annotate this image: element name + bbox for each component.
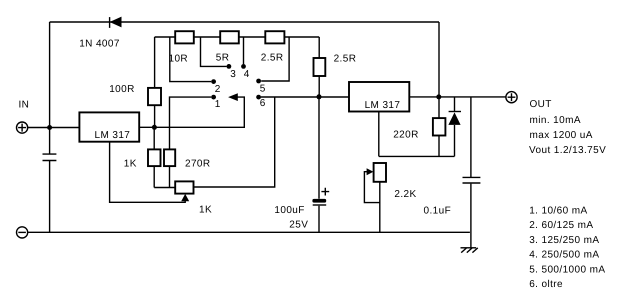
svg-text:6. oltre: 6. oltre — [529, 279, 563, 290]
svg-text:min. 10mA: min. 10mA — [530, 115, 581, 126]
wire resistors to trimmer left — [154, 187, 175, 189]
op-amp U2 LM317 regulator box second — [349, 82, 409, 112]
resistor 10R — [175, 31, 194, 43]
resistor 2.5R vertical — [314, 37, 326, 97]
label 270R — [185, 159, 211, 170]
potentiometer 1K trimmer — [175, 181, 193, 201]
switch wiper arrow — [228, 93, 238, 101]
svg-text:5R: 5R — [216, 53, 230, 64]
label 220R — [393, 129, 419, 140]
svg-text:10R: 10R — [169, 54, 189, 65]
wire left rail upper — [49, 22, 51, 154]
svg-text:5. 500/1000 mA: 5. 500/1000 mA — [529, 264, 605, 275]
wire switch contact 5 riser — [261, 37, 289, 81]
wire resistor chain top — [155, 36, 320, 38]
resistor 5R — [220, 31, 239, 43]
svg-text:4. 250/500 mA: 4. 250/500 mA — [529, 250, 599, 261]
node LM317 out junction — [152, 125, 157, 130]
resistor 220R — [433, 97, 446, 156]
terminal IN plus — [17, 122, 28, 133]
terminal minus — [17, 227, 28, 238]
svg-text:OUT: OUT — [530, 99, 552, 110]
label Vout range — [529, 145, 606, 156]
wire LM317 second output — [409, 96, 506, 98]
svg-text:4: 4 — [244, 69, 250, 80]
wire contact 6 to LM317 second input — [261, 96, 349, 98]
svg-text:1K: 1K — [199, 204, 212, 215]
ground — [461, 248, 478, 253]
svg-text:IN: IN — [19, 100, 30, 111]
node input junction — [47, 125, 52, 130]
svg-text:1N 4007: 1N 4007 — [79, 39, 120, 50]
label min 10mA — [530, 115, 581, 126]
wire right drop from top rail — [438, 22, 440, 97]
label 5R — [216, 53, 230, 64]
label OUT — [530, 99, 552, 110]
label 2.5R vertical — [334, 54, 357, 65]
wire LM317 output — [139, 97, 244, 127]
label 25V — [289, 219, 308, 230]
svg-text:25V: 25V — [289, 219, 308, 230]
diode 1N4007 — [110, 17, 122, 28]
node contact 3 — [227, 64, 237, 80]
capacitor input — [43, 154, 57, 160]
node 100uF junction — [317, 94, 322, 99]
svg-text:5: 5 — [260, 84, 266, 95]
resistor 2.5R horizontal — [265, 31, 284, 43]
resistor 1K — [148, 127, 161, 187]
node contact 6 — [256, 95, 266, 109]
capacitor 0.1uF — [463, 97, 481, 248]
wire switch contact 4 riser — [243, 37, 245, 64]
wire top rail — [50, 21, 439, 23]
svg-text:3. 125/250 mA: 3. 125/250 mA — [529, 235, 599, 246]
svg-text:2.2K: 2.2K — [394, 189, 416, 200]
wire left rail lower — [49, 161, 51, 233]
capacitor 100uF electrolytic — [312, 97, 326, 233]
wire LM317 second adj — [379, 112, 455, 157]
svg-text:LM 317: LM 317 — [365, 100, 401, 111]
label 1K trimmer — [199, 204, 212, 215]
label 2.5R — [261, 53, 284, 64]
svg-text:Vout 1.2/13.75V: Vout 1.2/13.75V — [529, 145, 606, 156]
label position 5 — [529, 264, 605, 275]
svg-text:100R: 100R — [109, 84, 135, 95]
resistor 100R — [148, 37, 161, 127]
svg-text:LM 317: LM 317 — [95, 130, 131, 141]
svg-text:1K: 1K — [124, 159, 137, 170]
label 1K — [124, 159, 137, 170]
svg-text:max 1200 uA: max 1200 uA — [530, 130, 593, 141]
svg-text:100uF: 100uF — [274, 205, 304, 216]
label position 6 — [529, 279, 563, 290]
node output junction — [436, 94, 441, 99]
terminal OUT plus — [506, 92, 517, 103]
label position 3 — [529, 235, 599, 246]
wire LM317 adj to trimmer wiper — [110, 142, 186, 203]
svg-text:2.5R: 2.5R — [261, 53, 284, 64]
svg-text:0.1uF: 0.1uF — [424, 205, 452, 216]
resistor 270R — [164, 149, 175, 187]
svg-text:1: 1 — [215, 99, 221, 110]
label plus 100uF — [321, 188, 329, 196]
wire IN to LM317 — [28, 127, 80, 129]
wire bottom rail — [28, 231, 470, 233]
svg-text:2.5R: 2.5R — [334, 54, 357, 65]
svg-text:2: 2 — [215, 84, 221, 95]
label 100R — [109, 84, 135, 95]
label 0.1uF — [424, 205, 452, 216]
label position 1 — [529, 205, 587, 216]
op-amp U1 LM317 regulator box — [79, 112, 139, 141]
svg-text:270R: 270R — [185, 159, 211, 170]
svg-text:1. 10/60 mA: 1. 10/60 mA — [529, 205, 587, 216]
svg-text:2. 60/125 mA: 2. 60/125 mA — [529, 220, 593, 231]
svg-text:6: 6 — [260, 98, 266, 109]
potentiometer 2.2K trimmer — [364, 163, 386, 232]
node contact 1 — [211, 95, 220, 110]
svg-text:220R: 220R — [393, 129, 419, 140]
node contact 5 — [256, 79, 266, 95]
label 2.2K — [394, 189, 416, 200]
wire switch contact 2 riser — [170, 37, 211, 82]
svg-text:3: 3 — [230, 69, 236, 80]
wire contact 6 branch to trimmer — [194, 97, 275, 187]
label position 2 — [529, 220, 593, 231]
label 1N 4007 — [79, 39, 120, 50]
label IN — [19, 100, 30, 111]
label 10R — [169, 54, 189, 65]
label max 1200 uA — [530, 130, 593, 141]
label 100uF — [274, 205, 304, 216]
label position 4 — [529, 250, 599, 261]
wire contact 1 to 270R — [170, 97, 212, 149]
wire switch contact 3 riser — [201, 37, 227, 66]
node contact 2 — [211, 79, 220, 95]
diode output protection — [448, 97, 461, 156]
node contact 4 — [241, 64, 250, 80]
